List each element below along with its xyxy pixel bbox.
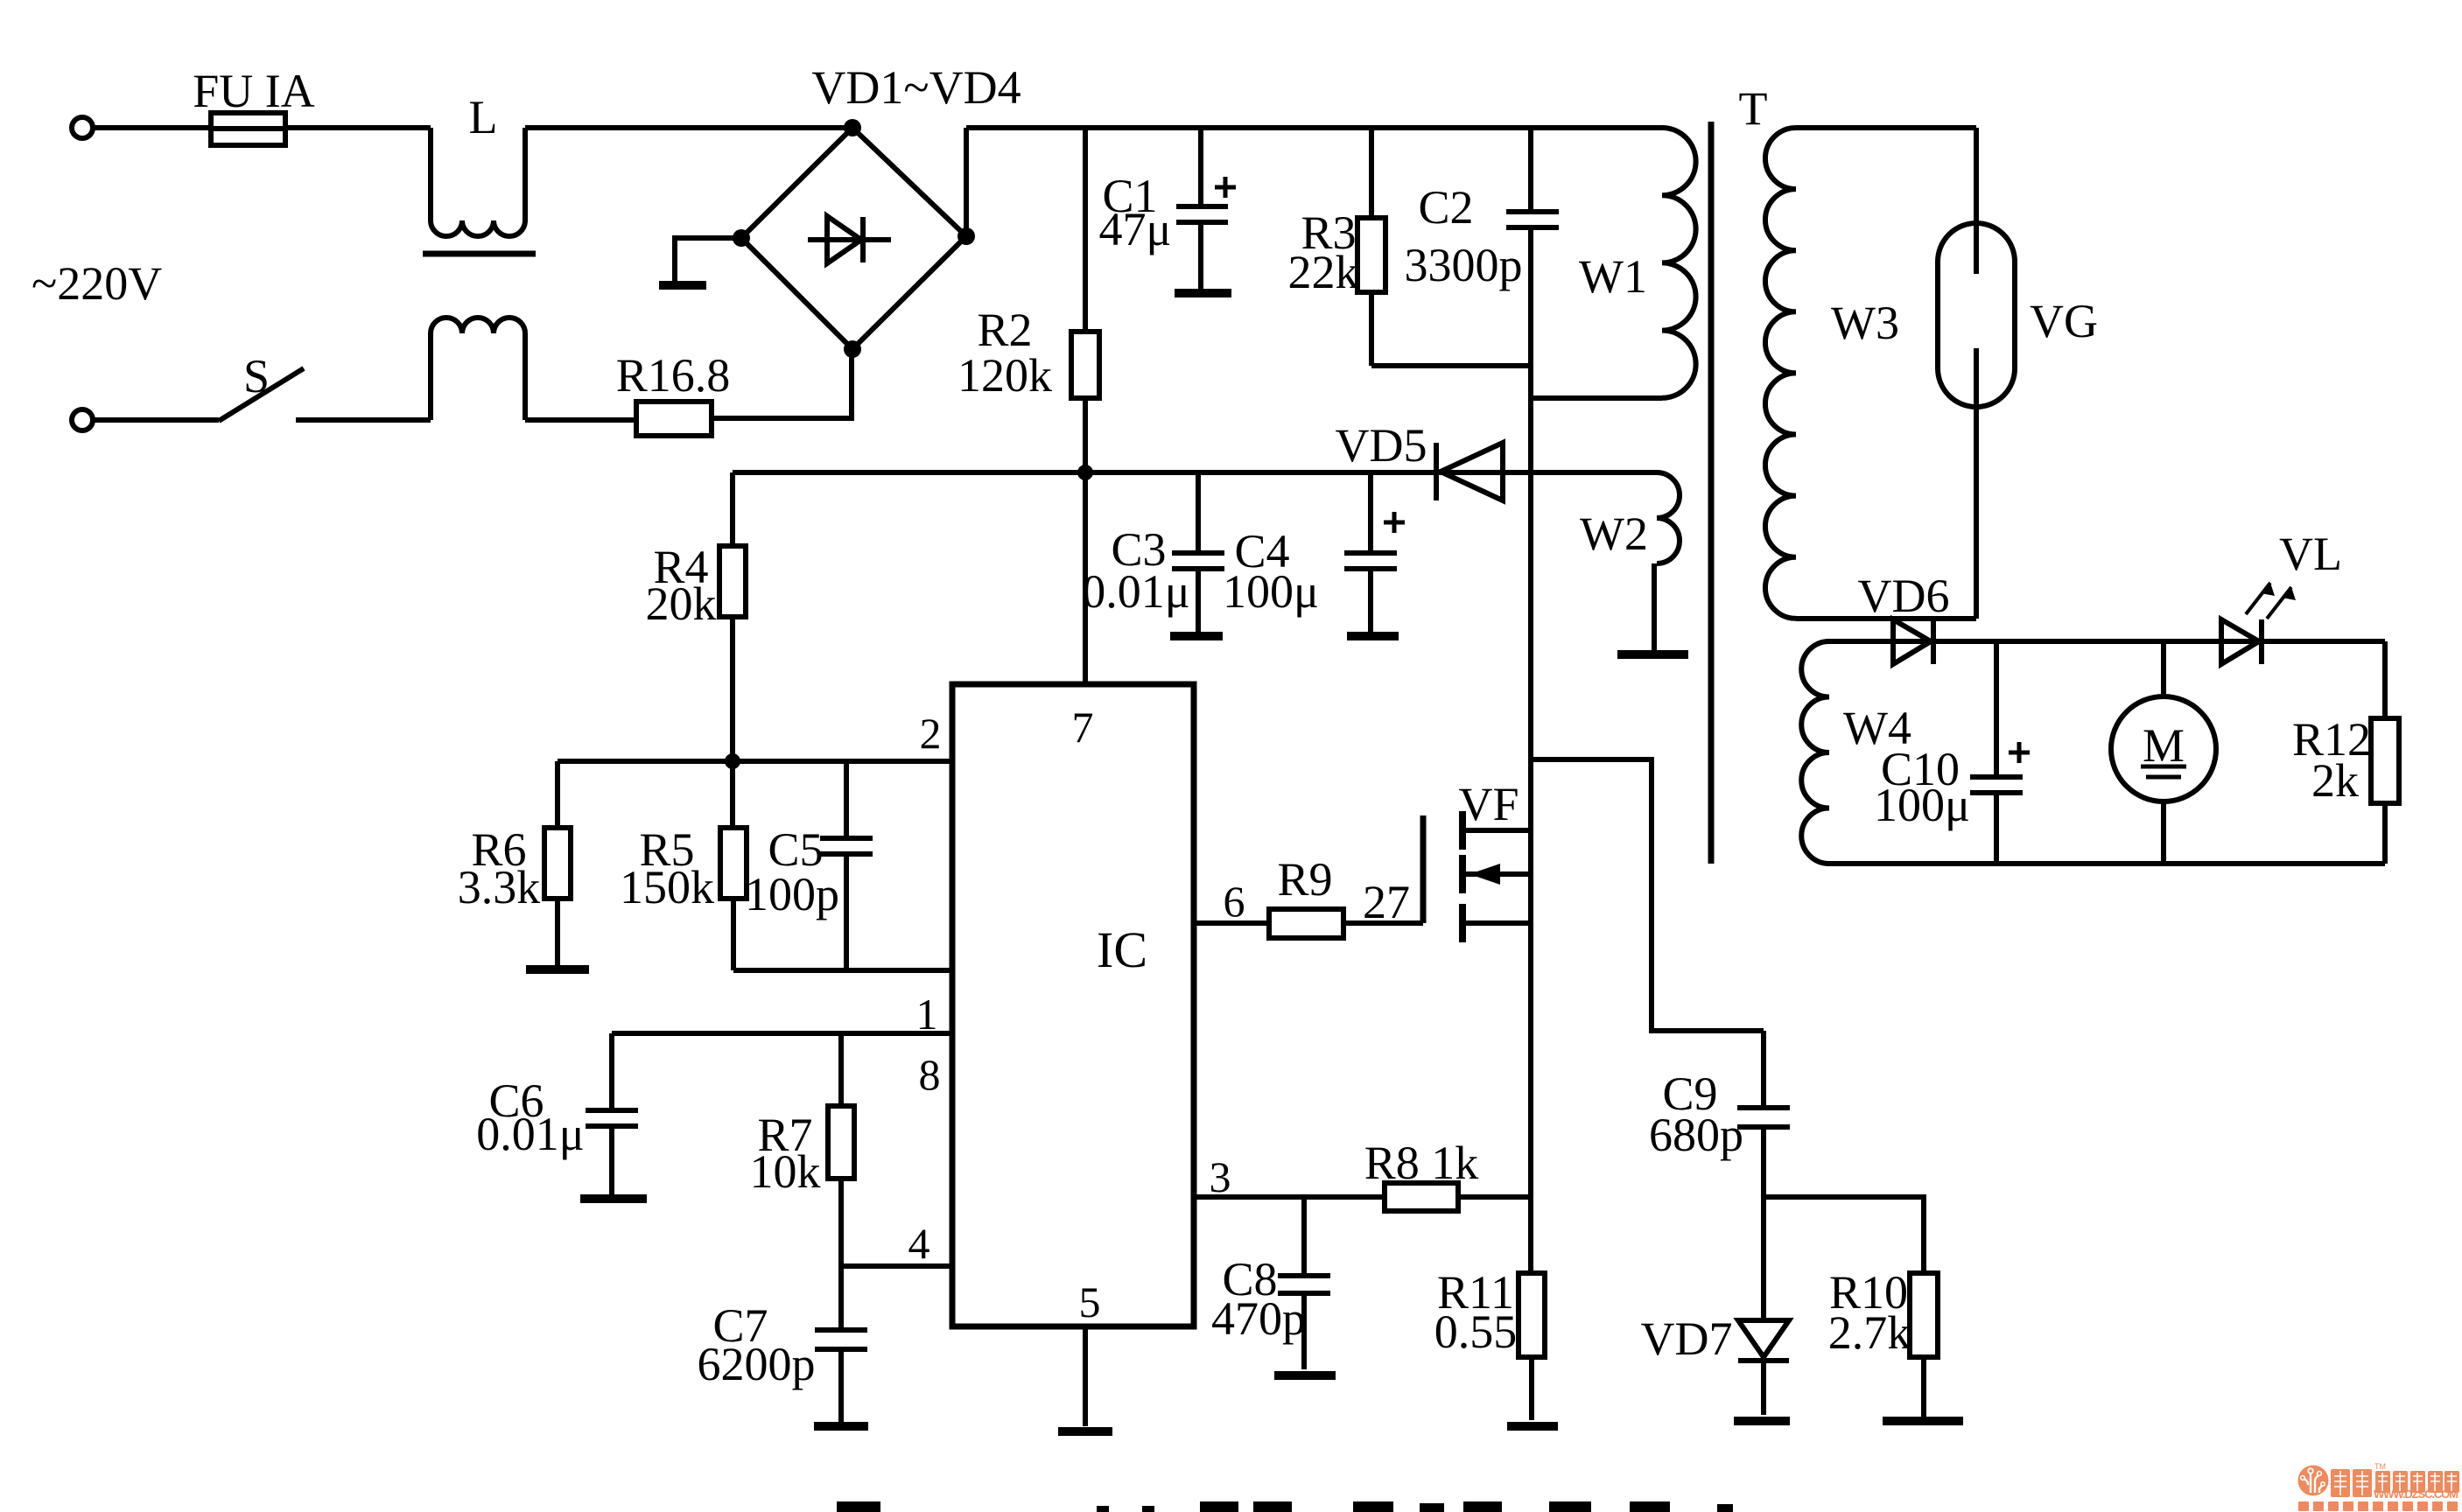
svg-text:6200p: 6200p xyxy=(698,1338,816,1390)
capacitor C4 100u xyxy=(1223,472,1405,632)
resistor R4 20k xyxy=(646,472,747,761)
svg-text:8: 8 xyxy=(919,1050,941,1099)
svg-text:10k: 10k xyxy=(750,1145,821,1198)
capacitor C5 100p xyxy=(745,761,873,970)
wire xyxy=(285,125,431,130)
node R2 junction xyxy=(1077,465,1093,480)
resistor R7 10k xyxy=(750,1033,855,1266)
svg-text:3.3k: 3.3k xyxy=(458,861,541,913)
ground under C4 xyxy=(1347,632,1399,640)
resistor R10 2.7k xyxy=(1828,1266,1938,1418)
svg-text:VD6: VD6 xyxy=(1858,570,1950,622)
op-amp IC box xyxy=(952,684,1194,1326)
svg-text:VD1~VD4: VD1~VD4 xyxy=(811,61,1021,114)
node R4/R5 xyxy=(725,753,740,769)
svg-text:6: 6 xyxy=(1224,877,1245,926)
svg-text:3300p: 3300p xyxy=(1405,239,1523,291)
wire drain branch to C9 xyxy=(1531,759,1764,1031)
svg-text:22k: 22k xyxy=(1288,246,1359,298)
svg-text:0.55: 0.55 xyxy=(1434,1305,1518,1358)
svg-text:C2: C2 xyxy=(1418,181,1473,234)
svg-text:2.7k: 2.7k xyxy=(1828,1306,1911,1359)
wire node to R10 xyxy=(1764,1197,1924,1273)
svg-text:7: 7 xyxy=(1072,703,1094,752)
svg-text:W2: W2 xyxy=(1580,507,1648,560)
resistor R2 120k xyxy=(957,128,1099,472)
pin2 wire xyxy=(558,759,952,764)
winding W1 xyxy=(1531,128,1696,398)
svg-text:WWW.DZSC.COM: WWW.DZSC.COM xyxy=(2374,1487,2458,1501)
wire R3 bottom to drain line xyxy=(1371,363,1531,368)
resistor R12 2k xyxy=(2292,641,2399,864)
wire xyxy=(296,417,431,423)
choke core xyxy=(423,251,536,257)
W4 bottom rail xyxy=(1829,861,2385,866)
svg-text:R9: R9 xyxy=(1277,853,1332,906)
ground under R10 xyxy=(1883,1417,1963,1425)
resistor R5 150k xyxy=(620,761,747,970)
W4 top rail xyxy=(1829,639,2385,644)
svg-text:FU IA: FU IA xyxy=(193,65,315,117)
motor M xyxy=(2111,641,2216,864)
VD5 supply rail xyxy=(733,470,1657,475)
capacitor C8 470p xyxy=(1211,1197,1330,1369)
svg-text:100μ: 100μ xyxy=(1874,779,1970,831)
wire xyxy=(525,417,636,423)
resistor R9 xyxy=(1269,853,1343,938)
LED VL xyxy=(2221,528,2342,664)
svg-text:150k: 150k xyxy=(620,861,714,913)
capacitor C7 6200p xyxy=(698,1266,868,1422)
ground at bridge left xyxy=(659,238,741,285)
wire pin7 line xyxy=(1083,472,1088,684)
switch S xyxy=(219,350,304,421)
pin 4 wire xyxy=(841,1219,952,1268)
svg-text:120k: 120k xyxy=(957,349,1052,402)
svg-text:VG: VG xyxy=(2030,295,2098,347)
svg-text:VD5: VD5 xyxy=(1336,419,1427,472)
wire bridge right node up to top rail xyxy=(964,128,969,236)
ground under R11 xyxy=(1507,1422,1558,1431)
capacitor C1 47u xyxy=(1099,128,1236,289)
diode VD7 xyxy=(1641,1197,1790,1415)
svg-text:100μ: 100μ xyxy=(1223,565,1319,618)
wire choke to bridge xyxy=(525,125,852,130)
svg-text:VF: VF xyxy=(1458,778,1519,830)
svg-text:W3: W3 xyxy=(1831,297,1899,349)
resistor R16.8 xyxy=(616,349,731,436)
ground under C3 xyxy=(1170,632,1223,640)
wire xyxy=(93,125,211,130)
bridge rectifier VD1~VD4 xyxy=(733,61,1021,358)
wire to bridge bottom xyxy=(712,349,852,418)
capacitor C9 680p xyxy=(1649,1031,1790,1197)
capacitor C2 3300p xyxy=(1405,128,1560,291)
ground under W2 xyxy=(1617,650,1688,659)
winding W2 xyxy=(1580,472,1680,650)
capacitor C6 0.01u xyxy=(476,1033,638,1194)
pin 6 wire xyxy=(1194,877,1269,926)
svg-text:R2: R2 xyxy=(977,304,1032,356)
svg-text:27: 27 xyxy=(1363,876,1410,928)
wire R5/C5 bottom to IC xyxy=(733,968,952,973)
svg-text:3: 3 xyxy=(1210,1152,1231,1201)
svg-text:VL: VL xyxy=(2279,528,2342,580)
svg-text:W1: W1 xyxy=(1579,250,1647,303)
transistor VF (MOSFET) xyxy=(1423,778,1531,942)
fuse FU 1A xyxy=(193,65,315,145)
terminal bottom-left xyxy=(72,409,93,430)
svg-text:~220V: ~220V xyxy=(32,257,162,310)
ground under C6 xyxy=(580,1194,647,1203)
svg-text:0.01μ: 0.01μ xyxy=(476,1108,584,1160)
svg-text:TM: TM xyxy=(2374,1462,2386,1471)
pin 1 wire xyxy=(612,990,952,1099)
svg-text:0.01μ: 0.01μ xyxy=(1082,565,1189,618)
wire xyxy=(93,417,219,423)
winding W4 xyxy=(1801,641,1911,864)
ground under C7 xyxy=(814,1422,868,1431)
svg-text:1: 1 xyxy=(916,990,938,1039)
wire R9 to gate, label 27 xyxy=(1343,876,1423,928)
svg-text:2k: 2k xyxy=(2311,754,2359,807)
drain/source vertical line xyxy=(1528,227,1533,1273)
winding W3 xyxy=(1765,128,1976,619)
svg-text:S: S xyxy=(243,350,270,402)
choke bottom winding xyxy=(431,318,525,420)
ground under VD7 xyxy=(1734,1417,1790,1425)
inductor L (common-mode choke top winding) xyxy=(431,91,852,236)
resistor R3 22k xyxy=(1288,128,1386,366)
watermark logo xyxy=(2298,1462,2460,1511)
pin 3 wire xyxy=(1194,1152,1385,1201)
ground under R6 xyxy=(526,965,589,974)
svg-text:T: T xyxy=(1739,82,1768,135)
resistor R11 0.55 xyxy=(1434,1266,1545,1420)
caption slivers (bottom edge of scan) xyxy=(837,1501,1733,1512)
svg-text:L: L xyxy=(469,91,498,143)
ground under pin 5 xyxy=(1058,1427,1112,1436)
svg-text:2: 2 xyxy=(920,709,942,758)
ground under C1 xyxy=(1175,289,1231,297)
svg-text:R8 1k: R8 1k xyxy=(1364,1137,1479,1189)
svg-text:47μ: 47μ xyxy=(1099,203,1172,255)
svg-text:100p: 100p xyxy=(745,868,839,920)
svg-text:4: 4 xyxy=(908,1219,930,1268)
ground under C8 xyxy=(1274,1371,1336,1380)
resistor R6 3.3k xyxy=(458,761,571,965)
svg-text:M: M xyxy=(2143,719,2185,772)
transformer T core xyxy=(1711,82,1768,864)
resistor R8 1k xyxy=(1364,1137,1531,1211)
svg-text:IC: IC xyxy=(1097,921,1147,978)
svg-text:470p: 470p xyxy=(1211,1292,1306,1345)
capacitor C3 0.01u xyxy=(1082,472,1224,632)
svg-text:20k: 20k xyxy=(646,577,717,630)
capacitor C10 100u xyxy=(1874,641,2030,864)
pin 5 wire xyxy=(1079,1277,1101,1426)
terminal top-left xyxy=(72,117,93,138)
top rail xyxy=(966,125,1662,130)
svg-text:5: 5 xyxy=(1079,1277,1101,1326)
diode VD6 xyxy=(1858,570,1950,664)
svg-text:R16.8: R16.8 xyxy=(616,349,731,402)
svg-text:680p: 680p xyxy=(1649,1109,1743,1161)
diode VD5 xyxy=(1336,419,1504,500)
svg-text:VD7: VD7 xyxy=(1641,1312,1733,1365)
lamp VG xyxy=(1938,128,2098,619)
